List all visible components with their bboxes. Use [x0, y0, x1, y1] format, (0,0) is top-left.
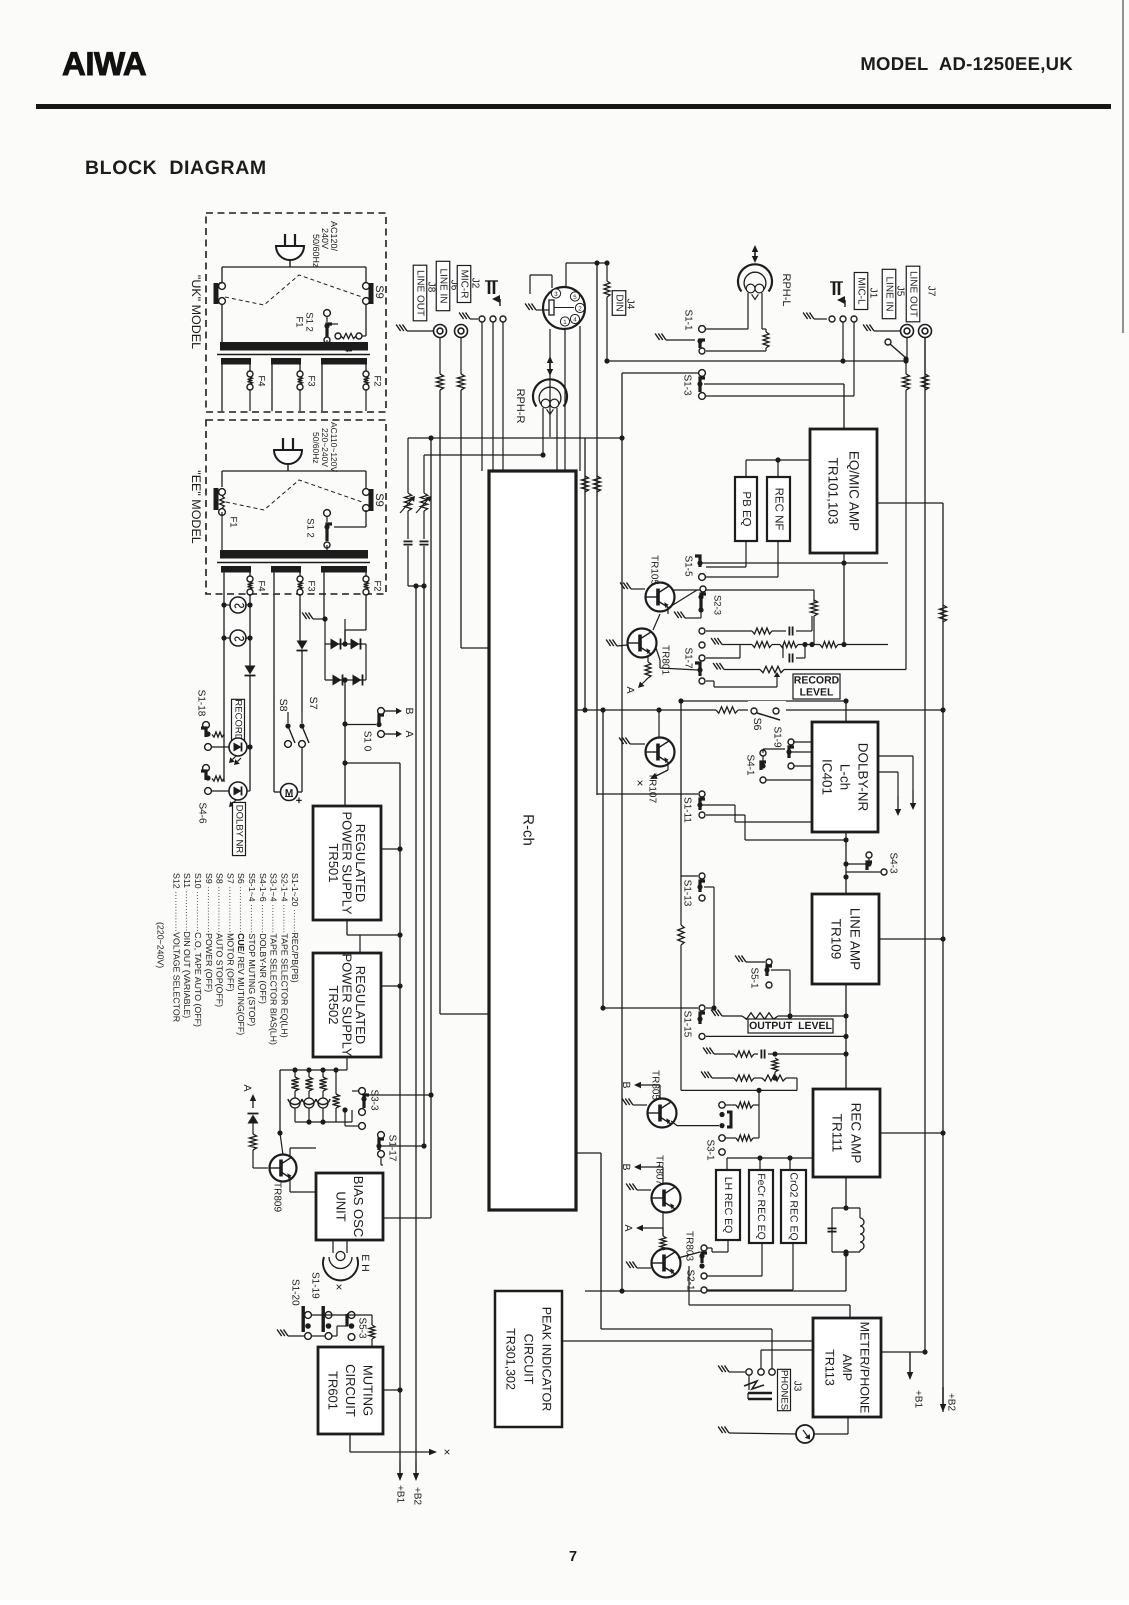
motor M1	[281, 784, 303, 808]
svg-text:S1-5: S1-5	[683, 555, 694, 577]
boxed label LINE OUT J7	[906, 266, 936, 322]
switch S3-3	[342, 1088, 369, 1130]
transformer T1 secondaries (EE)	[221, 566, 367, 573]
svg-text:J1: J1	[868, 288, 879, 299]
res x943	[939, 605, 946, 622]
page number 7	[569, 1549, 577, 1565]
wire rec amp bottom	[843, 1177, 848, 1211]
fuse F4 (UK primary)	[335, 333, 366, 339]
block R-ch (right channel circuits)	[489, 471, 576, 1210]
svg-text:"UK" MODEL: "UK" MODEL	[189, 275, 203, 349]
rail below bias pots	[295, 1110, 352, 1125]
svg-text:LINE OUT: LINE OUT	[415, 270, 426, 316]
label S5-3	[357, 1317, 368, 1339]
svg-text:FeCr REC EQ: FeCr REC EQ	[755, 1173, 767, 1240]
boxed label LINE IN J5	[882, 269, 905, 318]
label S1-19	[310, 1272, 321, 1299]
transformer T1 primary (UK)	[220, 342, 368, 351]
svg-text:4: 4	[573, 317, 577, 324]
svg-text:S4-6: S4-6	[197, 802, 208, 824]
svg-text:S1-20: S1-20	[290, 1279, 301, 1306]
UK model enclosure (dashed)	[206, 213, 386, 412]
wire top rail UK	[222, 267, 366, 283]
dolby out arrows	[878, 756, 916, 816]
label S1-18	[196, 690, 207, 717]
switch S6	[748, 701, 786, 720]
svg-text:S6 ················CUE/ REV MU: S6 ················CUE/ REV MUTING(OFF)	[236, 873, 246, 1035]
bus +B1 left	[395, 763, 406, 1503]
svg-text:S3-1: S3-1	[705, 1139, 716, 1161]
wire eq tees	[727, 1155, 813, 1170]
wire J6 into R-ch box	[461, 647, 489, 649]
wire TR801 collector to S1-7	[656, 648, 698, 670]
svg-text:REC AMP: REC AMP	[849, 1103, 864, 1164]
wire MIC-L contact down	[840, 322, 845, 364]
switch S5-1	[735, 956, 793, 1019]
block LINE AMP TR109	[812, 894, 879, 984]
wire y710 rail	[576, 707, 946, 712]
contacts J2	[479, 316, 506, 322]
label "UK" MODEL	[189, 275, 203, 349]
svg-text:TR803: TR803	[684, 1231, 695, 1261]
label S2-3	[712, 595, 723, 615]
wire S1-3 common to EQ amp	[704, 384, 844, 429]
switch S5-3	[347, 1312, 355, 1341]
boxed label RECORD	[232, 699, 245, 740]
block REC AMP TR111	[813, 1089, 880, 1177]
LED dolby indicator	[205, 782, 250, 809]
svg-text:S3-1~4 ··········TAPE SELECTOR: S3-1~4 ··········TAPE SELECTOR BIAS(LH)	[269, 873, 279, 1045]
svg-text:S1 0: S1 0	[362, 731, 373, 752]
switch function legend S1..S12	[156, 873, 301, 1045]
switch S1-19	[323, 1306, 332, 1339]
res J7 line	[921, 338, 928, 391]
svg-text:CIRCUIT: CIRCUIT	[343, 1364, 358, 1417]
label RPH-R	[514, 389, 526, 424]
label TR809	[272, 1182, 283, 1212]
photo resistor PR2	[416, 493, 431, 513]
svg-text:+B1: +B1	[395, 1485, 406, 1504]
label S1-13	[682, 880, 693, 907]
svg-text:2: 2	[578, 306, 582, 313]
mechanical link (dashed) EE	[226, 480, 362, 510]
svg-text:B: B	[620, 1081, 632, 1088]
block PEAK INDICATOR CIRCUIT TR301,302	[495, 1291, 562, 1427]
svg-text:CIRCUIT: CIRCUIT	[522, 1334, 536, 1385]
svg-text:IC401: IC401	[820, 759, 835, 795]
pot R bias 1	[288, 1070, 302, 1122]
svg-text:S8 ················AUTO STOP(O: S8 ················AUTO STOP(OFF)	[215, 873, 225, 1007]
bus +B2 left	[412, 583, 423, 1505]
wire top rail EE	[222, 471, 366, 488]
wire S1-11 common	[702, 805, 812, 822]
wire S1-13 common	[704, 887, 717, 1011]
transistor TR805	[622, 1099, 676, 1128]
label X (erase)	[332, 1283, 346, 1290]
wire S9 to S12/F4 UK	[365, 304, 367, 336]
wire TR809 collector	[290, 1148, 316, 1157]
bus x585	[581, 438, 588, 713]
AC plug P1 (UK)	[276, 234, 304, 267]
transistor TR105	[620, 583, 674, 612]
rc row A	[706, 616, 812, 636]
label RPH-L	[780, 273, 792, 306]
wire cap merge	[408, 583, 427, 1146]
wire psu to +B1 bus	[345, 762, 400, 764]
svg-text:S2-1~4 ··········TAPE SELECTOR: S2-1~4 ··········TAPE SELECTOR EQ(LH)	[279, 873, 289, 1038]
svg-text:S5-1: S5-1	[749, 967, 760, 989]
res S3-1 b	[725, 1105, 759, 1141]
label F2 (EE sec)	[372, 580, 383, 591]
label S1-5	[683, 555, 694, 577]
svg-text:50/60Hz: 50/60Hz	[311, 234, 321, 268]
svg-text:S9 ················POWER (O: S9 ················POWER (OFF)	[204, 873, 214, 992]
fuse F4 (UK sec)	[247, 371, 253, 411]
bus x681	[678, 698, 683, 886]
svg-text:×: ×	[440, 1448, 454, 1455]
svg-text:LEVEL: LEVEL	[800, 687, 834, 699]
svg-text:DOLBY-NR: DOLBY-NR	[856, 743, 871, 812]
label S4-1	[745, 754, 756, 776]
res RPH-L right leg	[762, 329, 769, 351]
svg-text:S2-3: S2-3	[712, 595, 723, 615]
svg-text:"EE" MODEL: "EE" MODEL	[189, 470, 203, 544]
label S1-1	[683, 309, 694, 331]
wire line amp right	[879, 936, 946, 941]
svg-text:REC NF: REC NF	[773, 488, 785, 531]
arrow X TR107	[633, 763, 668, 787]
switch S9 (EE)	[363, 489, 374, 512]
label S1-11	[682, 797, 693, 823]
switch S2-3	[668, 586, 706, 618]
wire TR105 collector	[673, 590, 814, 602]
label E H	[359, 1254, 371, 1272]
label S9 (EE)	[373, 493, 385, 506]
jack J6 LINE IN	[455, 325, 468, 338]
wire muting right to bus	[383, 1387, 403, 1392]
svg-text:J4: J4	[625, 299, 636, 310]
boxed label LINE IN J6	[436, 261, 459, 310]
wire S9a to transformer UK	[221, 304, 223, 343]
switch S12 (UK volt sel)	[324, 310, 338, 343]
ground DIN	[525, 304, 549, 311]
label F3 (UK sec)	[306, 375, 317, 386]
svg-text:L-ch: L-ch	[838, 764, 853, 790]
title BLOCK DIAGRAM	[85, 157, 267, 179]
block DOLBY-NR L-ch IC401	[812, 722, 878, 832]
svg-text:S1 2: S1 2	[305, 518, 316, 538]
boxed label DIN J4	[612, 291, 635, 316]
boxed label PHONES J3	[778, 1369, 803, 1410]
svg-text:S12 ··············VOLTAGE SEL: S12 ··············VOLTAGE SELECTOR	[171, 873, 181, 1022]
rc cap parallel	[783, 645, 805, 663]
rating text AC120/240V 50/60Hz	[311, 221, 339, 268]
svg-text:A: A	[403, 730, 415, 737]
svg-text:UNIT: UNIT	[333, 1191, 348, 1221]
rc row B	[711, 638, 888, 648]
label S1-15	[682, 1011, 693, 1038]
wire S3-3 to bus	[364, 1092, 434, 1097]
wire TR805 out	[671, 1121, 719, 1126]
label F1 (EE)	[228, 516, 239, 527]
svg-text:S7 ················MOTOR (OFF: S7 ················MOTOR (OFF)	[225, 873, 235, 992]
label TR803	[684, 1231, 695, 1261]
arrow +B1 right	[881, 1349, 928, 1408]
switch S12 (EE)	[324, 510, 332, 551]
switch S1-9	[786, 739, 812, 758]
svg-text:S9: S9	[373, 493, 385, 506]
label S1-9	[772, 726, 783, 748]
svg-text:LINE IN: LINE IN	[884, 276, 895, 311]
jack J7 LINE OUT	[919, 325, 932, 338]
EE model enclosure (dashed)	[206, 420, 386, 594]
block METER/PHONE AMP TR113	[813, 1318, 881, 1417]
svg-text:S1-15: S1-15	[682, 1011, 693, 1038]
switch S4-1	[760, 749, 812, 770]
AC plug P1 (EE)	[274, 438, 302, 471]
wire motor leads	[274, 594, 302, 792]
res J6	[457, 338, 464, 649]
output level pot	[711, 984, 849, 1089]
svg-text:J7: J7	[926, 286, 937, 297]
label TR107	[647, 773, 658, 803]
res J8	[436, 338, 443, 1015]
switch S1-1	[655, 326, 766, 354]
svg-text:METER/PHONE: METER/PHONE	[858, 1322, 872, 1414]
UK secondary leads	[222, 364, 366, 411]
block BIAS OSC UNIT	[316, 1173, 383, 1240]
block LH REC EQ	[716, 1170, 740, 1240]
wire DIN pins down	[550, 326, 580, 471]
svg-text:LINE OUT: LINE OUT	[908, 271, 919, 317]
wire TR501 right to +B1 line	[381, 846, 403, 851]
label S7	[307, 697, 319, 710]
wire y1291 to LC	[585, 1251, 849, 1293]
switch S1-5	[695, 556, 705, 580]
svg-text:S8: S8	[277, 699, 289, 712]
bus x943 (+B2 right)	[940, 503, 957, 1412]
wire rail y455	[424, 454, 543, 456]
wire S9 to S12 EE	[334, 510, 366, 527]
wire dolby bottom	[843, 832, 848, 894]
svg-text:S11 ··············DIN OUT (VA: S11 ··············DIN OUT (VARIABLE)	[182, 873, 192, 1018]
header rule	[36, 104, 1111, 109]
svg-text:TR809: TR809	[272, 1182, 283, 1212]
svg-text:OUTPUT LEVEL: OUTPUT LEVEL	[749, 1020, 832, 1032]
wire S12 to transformer UK	[326, 340, 328, 343]
svg-text:J5: J5	[895, 286, 906, 297]
label TR805	[650, 1070, 661, 1100]
wire corner x424	[423, 455, 425, 493]
wire corner x408	[407, 438, 409, 493]
DIN connector J4	[543, 287, 585, 329]
svg-text:A: A	[241, 1084, 253, 1091]
arrow B TR807	[620, 1163, 663, 1184]
svg-text:RECORD: RECORD	[794, 675, 840, 687]
svg-text:7: 7	[569, 1549, 577, 1565]
bus x603	[600, 707, 605, 1010]
wire DIN top rail	[566, 260, 607, 287]
head RPH-R	[533, 356, 567, 471]
wire F3 lead down	[299, 594, 301, 641]
svg-text:S4-1~6 ··········DOLBY-NR (OFF: S4-1~6 ··········DOLBY-NR (OFF)	[258, 873, 268, 1004]
ground J1	[803, 313, 827, 320]
svg-text:×: ×	[332, 1283, 346, 1290]
erase head EH	[323, 1240, 358, 1280]
wire muting bottom to X arrow	[350, 1434, 454, 1456]
rc rec amp in 2	[701, 1072, 797, 1091]
res DIN line	[604, 260, 610, 361]
label S1-20	[290, 1279, 301, 1306]
rc rec amp in 1	[703, 1048, 846, 1059]
label S5-1	[749, 967, 760, 989]
wire rec amp right	[880, 1130, 946, 1135]
fuse F3 (EE sec)	[297, 576, 303, 595]
wire F1 to transformer EE	[221, 512, 223, 551]
wire J2 contacts down	[482, 322, 503, 471]
boxed label OUTPUT LEVEL	[748, 1019, 833, 1033]
svg-text:1: 1	[563, 319, 567, 326]
wire R-ch to phones	[576, 1153, 772, 1329]
svg-text:S1-19: S1-19	[310, 1272, 321, 1299]
res S3-1 a	[725, 1090, 759, 1108]
label TR807	[654, 1155, 665, 1185]
transformer T1 secondaries (UK)	[221, 358, 367, 365]
svg-text:S7: S7	[307, 697, 319, 710]
rc row C	[706, 645, 740, 659]
svg-text:F2: F2	[372, 580, 383, 591]
switch S1-7	[695, 628, 705, 684]
phones jack J3 symbol	[744, 1375, 772, 1399]
wire S2-1 to CrO2	[707, 1243, 793, 1290]
svg-text:F4: F4	[256, 375, 267, 386]
svg-text:×: ×	[633, 779, 647, 786]
wire rec row3	[681, 1088, 797, 1093]
ground J2	[459, 313, 478, 320]
svg-text:MIC-L: MIC-L	[856, 277, 867, 305]
svg-text:TR502: TR502	[326, 985, 341, 1024]
transistor TR807	[626, 1184, 680, 1237]
switch S1-18 (rec indicator)	[201, 722, 224, 738]
transistor TR809	[270, 1130, 297, 1181]
LC circuit	[828, 1208, 865, 1255]
label F2 (UK sec)	[372, 375, 383, 386]
res rec fb	[772, 1058, 778, 1081]
wire S1-3 nc to MIC-L	[706, 322, 854, 396]
res TR105 load	[810, 600, 817, 645]
switch S4-6 contact	[201, 765, 224, 782]
switch S11 din out	[885, 338, 909, 362]
svg-text:3: 3	[554, 291, 558, 298]
wire EQ out right	[877, 502, 943, 504]
boxed label MIC-L J1	[854, 273, 878, 310]
label S12 F1 (UK)	[294, 312, 315, 332]
svg-text:TR601: TR601	[326, 1371, 341, 1410]
switch S9a (UK power, left)	[214, 283, 226, 305]
phones contacts	[718, 1329, 813, 1375]
switch S1-13	[681, 873, 705, 901]
wire DIN upper-left	[530, 275, 552, 294]
arrow B TR805	[620, 1081, 660, 1098]
svg-text:BIAS OSC: BIAS OSC	[351, 1176, 366, 1237]
rating text AC110~120V/220~240V 50/60Hz	[311, 422, 339, 473]
fuse F2 (EE sec)	[363, 576, 369, 595]
svg-text:A: A	[624, 686, 636, 693]
svg-text:DOLBY NR: DOLBY NR	[234, 805, 245, 854]
wire S2-1 to LH	[707, 1240, 728, 1252]
bridge rectifier D3-D6	[322, 616, 366, 685]
label S8	[277, 699, 289, 712]
svg-text:S10 ··············C.O, TAPE: S10 ··············C.O, TAPE AUTO (OFF)	[193, 873, 203, 1027]
svg-text:EQ/MIC AMP: EQ/MIC AMP	[847, 451, 862, 531]
switch S1-20	[303, 1306, 311, 1339]
wire TR105 emitter	[667, 608, 669, 614]
EE secondary leads	[224, 572, 366, 644]
wire J8 into R-ch box	[440, 1013, 489, 1015]
res record level	[713, 663, 906, 681]
switch S10 cue	[345, 708, 402, 738]
label S10	[362, 731, 373, 752]
res y710	[716, 704, 738, 716]
brand AIWA	[62, 45, 146, 82]
svg-text:E H: E H	[359, 1254, 371, 1272]
mic jack J2 symbol	[485, 281, 500, 306]
photo resistor PR1	[400, 493, 415, 513]
svg-text:RPH-R: RPH-R	[514, 389, 526, 424]
svg-text:TR113: TR113	[823, 1349, 837, 1386]
label S4-6	[197, 802, 208, 824]
boxed label DOLBY NR	[233, 802, 246, 855]
switch S4-3	[843, 852, 887, 875]
svg-text:F3: F3	[306, 375, 317, 386]
res J5 line	[902, 361, 909, 670]
transistor TR803	[626, 1249, 680, 1278]
label F4 (EE sec)	[256, 580, 267, 591]
svg-text:S1-11: S1-11	[682, 797, 693, 823]
svg-text:F3: F3	[306, 580, 317, 591]
svg-text:+B2: +B2	[946, 1393, 957, 1412]
wire S1-5 to x844	[702, 553, 888, 645]
svg-text:TR801: TR801	[660, 645, 671, 675]
wire F4 lead down	[249, 594, 251, 666]
block REGULATED POWER SUPPLY TR501	[313, 806, 381, 920]
bus x622	[619, 373, 624, 1291]
block FeCr REC EQ	[749, 1170, 773, 1243]
wire meter feed	[689, 1266, 850, 1318]
wire S2-1 to FeCr	[707, 1243, 762, 1276]
arrow A TR803 + res	[622, 1224, 666, 1250]
svg-text:CrO2 REC EQ: CrO2 REC EQ	[788, 1172, 800, 1240]
svg-text:PHONES: PHONES	[779, 1370, 790, 1410]
bus x431	[428, 435, 433, 1218]
svg-text:M: M	[285, 788, 293, 799]
boxed label LINE OUT J8	[413, 265, 436, 321]
svg-text:TR301,302: TR301,302	[504, 1328, 518, 1390]
label S6	[751, 718, 763, 731]
wire S-cluster top rail	[311, 1315, 375, 1347]
label S3-3	[369, 1089, 380, 1111]
label S4-3	[888, 852, 899, 874]
svg-text:S3-3: S3-3	[369, 1089, 380, 1111]
label S1-3	[682, 374, 693, 396]
svg-text:S1-3: S1-3	[682, 374, 693, 396]
contacts J1	[829, 316, 857, 322]
wire S1-7 nc to pot	[706, 681, 777, 687]
jack J5 LINE IN	[901, 325, 914, 338]
label S12 (EE)	[305, 518, 316, 538]
svg-text:50/60Hz: 50/60Hz	[311, 432, 321, 464]
label S2-1	[685, 1269, 696, 1291]
